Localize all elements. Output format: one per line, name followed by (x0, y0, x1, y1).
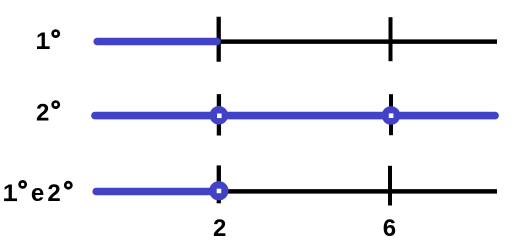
row 3: open point at 2 (209, 181, 228, 200)
row 3: tick at 2 (217, 165, 221, 203)
row 1 label: degree sign (53, 31, 59, 37)
row 2 label: degree sign (53, 102, 59, 108)
row 2: blue full line (95, 112, 495, 120)
row 2: open point at 2 (210, 106, 229, 125)
row 3: tick at 6 (388, 166, 392, 206)
svg-text:2: 2 (47, 180, 60, 207)
svg-text:2: 2 (213, 215, 226, 242)
row 1: blue segment x&lt;2 (97, 38, 217, 46)
svg-text:e: e (31, 180, 44, 207)
row 1: tick at 6 (389, 17, 393, 61)
row 2: tick at 2 (217, 94, 221, 135)
row 1: tick at 2 (217, 17, 221, 62)
svg-text:1: 1 (3, 180, 16, 207)
svg-text:1: 1 (36, 28, 49, 55)
row 1: black number line (217, 39, 497, 44)
row 3 label: 1 (3, 180, 17, 207)
svg-text:6: 6 (383, 215, 396, 242)
row 2: tick at 6 (389, 94, 393, 135)
row 3 label: first degree sign (20, 181, 26, 187)
row 1 label: 1 (36, 28, 50, 55)
svg-text:2: 2 (36, 100, 49, 127)
row 2: open point at 6 (382, 106, 401, 125)
row 3: black number line (219, 189, 497, 194)
row 3: blue segment x&lt;2 (96, 188, 215, 195)
row 3 label: second degree sign (65, 182, 71, 188)
